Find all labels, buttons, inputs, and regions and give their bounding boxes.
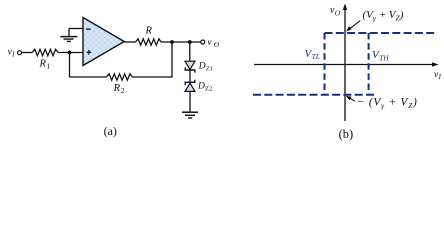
x axis vI (254, 62, 442, 81)
svg-text:O: O (335, 8, 341, 17)
label VTH (372, 49, 389, 62)
wire (124, 41, 135, 43)
wire (133, 76, 173, 78)
ground (182, 112, 198, 118)
label vI (8, 48, 16, 59)
svg-text:v: v (207, 38, 212, 48)
node zener branch junction (188, 40, 192, 44)
op-amp U1 (83, 18, 124, 66)
dashed vertical at VTL (324, 33, 326, 95)
svg-text:D: D (198, 62, 206, 72)
svg-text:(a): (a) (104, 124, 117, 138)
label (VY + VZ) with leader arrow (346, 9, 403, 32)
wire (22, 52, 32, 54)
lower output level dashed line -(VY+VZ) (253, 94, 375, 96)
svg-text:R: R (113, 83, 121, 94)
node output junction (170, 40, 174, 44)
label VTL (305, 48, 320, 61)
ground (op-amp minus input) (60, 29, 77, 42)
svg-text:Z1: Z1 (206, 66, 213, 73)
svg-text:I: I (11, 51, 15, 59)
zener diode DZ2 (185, 80, 212, 93)
label vO (207, 38, 219, 49)
svg-text:O: O (214, 40, 220, 49)
resistor R2 (107, 74, 133, 95)
node A junction dot (68, 51, 72, 55)
wire (189, 70, 191, 82)
svg-text:TL: TL (312, 52, 320, 61)
svg-text:I: I (438, 73, 442, 81)
wire (69, 53, 71, 78)
wire (161, 41, 201, 43)
zener diode DZ1 (185, 61, 213, 72)
svg-text:Z2: Z2 (205, 86, 212, 93)
dashed vertical at VTH (368, 33, 370, 95)
node vI input terminal (18, 51, 22, 55)
svg-text:D: D (197, 82, 205, 92)
svg-text:TH: TH (379, 54, 389, 63)
wire (58, 52, 83, 54)
wire (171, 42, 173, 78)
svg-text:R: R (39, 59, 47, 70)
wire (69, 28, 83, 30)
svg-text:2: 2 (121, 86, 125, 95)
svg-text:(Vγ + VZ): (Vγ + VZ) (363, 9, 404, 23)
wire (70, 76, 107, 78)
label -(VY + VZ) with leader arrow (346, 96, 418, 110)
svg-text:− (Vγ + VZ): − (Vγ + VZ) (357, 96, 418, 110)
svg-text:1: 1 (47, 62, 51, 71)
svg-text:R: R (145, 25, 153, 36)
wire (189, 42, 191, 61)
svg-text:(b): (b) (339, 127, 354, 141)
wire (189, 91, 191, 112)
resistor R (136, 25, 162, 45)
resistor R1 (32, 49, 58, 70)
y axis vO (330, 3, 347, 121)
node vO output terminal (201, 40, 205, 44)
upper output level dashed line +(VY+VZ) (325, 32, 438, 34)
